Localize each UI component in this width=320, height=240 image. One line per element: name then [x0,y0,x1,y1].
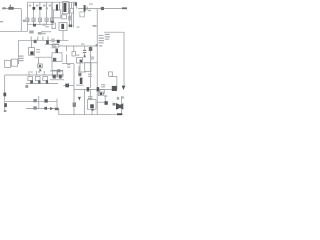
connector J2 [100,90,104,94]
resistor R2 [32,18,35,22]
ic U2 [87,100,96,110]
diode D2 [65,84,69,88]
wire ic drop [62,30,64,40]
resistor R10 [11,59,17,66]
wire bottom rail of branches [28,24,55,26]
specks above rail75 [31,71,33,72]
label specks above y46 [81,44,85,45]
wire Q1 emitter drop [79,63,81,72]
resistor R7 [70,8,74,13]
resistor R5 [50,18,53,22]
wire y72 right [78,71,86,73]
resistor marks on x74 [73,103,76,107]
wire top-right rail [78,8,127,10]
resistor R17 core [59,75,62,79]
capacitor C3 dark [34,40,37,43]
label text K1 [52,45,57,46]
faint marks near 117 [117,97,120,100]
junction dark near bend [55,108,59,111]
junction dot under R12 [39,70,41,72]
wire left vertical [4,75,6,110]
resistor R8 [29,48,35,56]
label c1 [29,5,32,7]
diode D5 [109,72,113,76]
terminal dark top right [122,7,127,9]
wire drop to small box [38,57,40,64]
resistor R12 core [39,65,41,67]
capacitor C1 dark [33,7,36,10]
label text marks A [19,56,24,57]
capacitor C2 dark [39,7,42,10]
wire cap x84.6 upper [84,46,86,50]
label c5 [49,5,51,7]
connector J1 [52,23,55,29]
capacitor C14 top right dark [101,7,104,10]
speck near x88 [88,10,91,11]
wire left drop [20,9,22,32]
transformer T1 left winding box [53,10,61,18]
label text under rail [43,24,46,26]
dash left edge [0,21,3,22]
label above U2 [88,96,93,97]
wire x116.9 riser [116,77,118,90]
capacitor C13 dark [44,107,47,110]
relay K1 marks [53,58,56,62]
wire mid-left comp riser [31,40,33,47]
wire y44.6 rail [45,44,59,46]
label text C4 [41,31,46,32]
wire crossing vertical [38,96,40,109]
resistor R1 [26,18,29,22]
label c3 [43,5,46,7]
wire y71 link [50,70,63,72]
resistor R14 [35,77,40,81]
solder dash J1 [51,21,54,23]
junction near bus top [96,44,98,46]
label text marks C [105,34,110,35]
resistor R13 core [30,80,33,84]
label text cap [76,55,79,56]
mark below left drop [23,20,26,22]
wire x90.5 drop [90,46,92,88]
capacitor C15 dark bar [84,5,86,11]
wire transformer mid risers [69,2,76,27]
wire transformer left [51,2,53,23]
wire x121.6 [121,96,123,114]
wire rail y89.4 [74,88,117,90]
ticks above y40 [30,37,33,41]
ic U1 core [61,24,64,29]
resistor R3 [38,18,41,22]
transformer core bar 2 [63,3,66,12]
wire branch 2 [33,2,35,18]
opto U3 [85,63,91,72]
wire tick x79 [78,66,80,72]
wire top-left rail [2,8,21,10]
resistor R16 [52,70,57,77]
resistor R9 [5,60,11,67]
wire branch 3 [39,2,41,18]
label text C5 left [51,39,54,40]
faint dash y31 [46,31,51,32]
wire main vertical bus [96,9,98,115]
wire mid horizontal bus [19,39,69,41]
label text marks D [101,84,105,85]
led D8 triangle [78,97,81,101]
wire cap drop [84,9,86,13]
winding tap dark dash [69,25,73,27]
capacitor C2b faint [51,7,53,9]
diode D6 pair [50,107,53,110]
resistor R15 [43,77,48,81]
label text U3 left [67,64,71,65]
diode D1 [57,69,61,72]
resistor R13 [28,77,33,81]
resistor R11 [72,52,76,57]
junction mark [25,85,28,88]
wire right horizontal [104,31,124,33]
ic U2 pin dot [92,109,94,111]
wire box drop [51,62,53,72]
diode D7 dark [105,101,108,105]
fuse F1 dark [3,93,6,97]
winding side marks [68,16,71,21]
wire long vertical x73.8 [73,64,75,115]
mark near x97 top [93,25,97,26]
marks above mid bus [29,31,34,34]
wire branch 1 [27,2,29,18]
resistor R16 core [53,75,56,79]
capacitor C8 dark [87,87,90,91]
junction dot x84.6 [84,55,86,57]
specks near x77 y27 [77,27,80,28]
wire node A horizontal [0,30,28,32]
transistor Q1 core [80,60,82,63]
wire x84.6 bottom [84,89,86,114]
transformer core bar 1 [56,4,58,10]
wire y85 [76,84,84,86]
wire y83.4 rail [26,82,58,84]
wire cap branch C [66,46,68,64]
label c2 [36,5,39,7]
wire y102.2 [97,101,106,103]
wire x90.5 bottom [90,89,92,100]
diode D3 [89,47,93,51]
wire x105 stub [104,95,106,102]
transformer T1 right box [63,2,69,14]
capacitor C11 electrolytic [4,103,7,107]
capacitor C1b faint [46,7,48,9]
terminal bottom right dark [117,113,122,115]
resistor R18 marks [33,99,36,102]
wire y57 link [35,56,52,58]
triac Q4 cluster [116,103,123,110]
wire comp riser x73.8 [73,46,75,52]
dark tap mark [75,3,77,6]
wire branch 5 [51,2,53,18]
capacitor C7 plates [83,50,86,51]
label text above rail89 [88,74,92,75]
wire bottom rail [59,114,122,116]
wire rail y75 [5,74,64,76]
label text marks B [99,38,105,39]
resistor R19 marks [33,106,36,109]
label text Q1 [91,57,94,58]
label text right of bus bottom [104,96,108,97]
capacitor C10 [53,44,59,47]
wire lower-left bus2 [26,108,59,110]
resistor R14 core [38,80,40,84]
arrow head right bus [122,86,126,90]
wire y85.5 link [63,85,74,87]
box small right of cap drop [80,12,85,17]
transistor Q2 body [80,78,83,84]
wire cap x84.6 lower [84,53,86,57]
ic U1 [59,22,67,30]
wire y63.5 [62,63,74,65]
wire y79.8 [50,79,64,81]
wire y46 rail [59,45,97,47]
capacitor C9 dark [97,87,100,91]
resistor R12 [38,64,43,68]
transistor Q1 [77,58,83,63]
relay K1 [52,53,62,62]
label text above [45,26,49,27]
branch box cores [27,19,29,21]
wire R12 leg [39,68,41,71]
resistor R15 core [46,80,48,84]
label text top mid [89,4,93,5]
resistor R17 [58,70,63,77]
junction dark on rail [33,24,36,27]
wire right vertical bus [123,32,125,86]
capacitor C6 dark [56,49,59,53]
resistor R8 core [30,51,33,54]
ground mark [4,110,7,112]
wire bottom-left bus [5,100,57,102]
capacitor C4 dark [46,40,49,44]
ic U2 core [90,104,94,108]
wire bend to bottom rail [58,109,60,115]
wire left mid drop [18,40,20,63]
capacitor C12 dark [44,99,47,102]
wire stubs to rail [28,22,52,25]
wire riser x57 [56,99,58,109]
base marks Q2 [78,73,81,76]
wire box drop bottom [91,110,93,114]
resistor R4 [45,18,48,22]
wire top rail [28,1,78,3]
wire branch riser [27,25,29,32]
capacitor C5 dark [57,40,60,43]
wire y76.5 [111,76,117,78]
diode D4 dark [112,86,117,91]
label text R8 right [36,49,40,50]
wire ticks above rail75 [29,71,44,75]
switch S1 [8,7,13,10]
plug P1 [3,7,6,9]
wire branch 4 [46,2,48,18]
wire to boxes [17,63,20,65]
resistor R6 [62,15,67,19]
wire winding mid [59,2,61,10]
wire transistor out [83,62,97,64]
crystal Y1 [100,93,103,96]
